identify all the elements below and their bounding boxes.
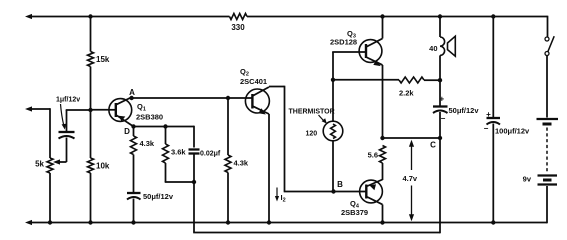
junction 4.3k R5-ground xyxy=(226,220,230,224)
resistor 4.3k (R4) xyxy=(131,136,137,155)
wire Q3 emitter down to node C (crosses 2.2k line) xyxy=(382,65,384,138)
wire bottom ground rail xyxy=(29,222,547,224)
wire Q2 collector to node B xyxy=(269,86,285,88)
svg-text:1μf/12v: 1μf/12v xyxy=(56,97,80,104)
capacitor C3 0.02uf xyxy=(189,148,200,150)
wire battery to ground rail xyxy=(546,186,548,223)
junction Q2 emitter-ground xyxy=(267,220,271,224)
wire thermistor junction to 2.2k xyxy=(333,79,399,81)
junction top rail / speaker branch xyxy=(438,14,442,18)
svg-text:3.6k: 3.6k xyxy=(171,148,186,157)
svg-text:15k: 15k xyxy=(96,55,110,64)
transistor Q4 2SB379 (PNP) xyxy=(360,180,383,203)
arrow top rail continuation (to left) xyxy=(25,14,32,19)
capacitor C1 1uf/12v xyxy=(59,131,75,133)
junction Q4 collector-ground xyxy=(380,220,384,224)
wire base junction to 10k xyxy=(90,110,92,158)
svg-text:THERMISTOR: THERMISTOR xyxy=(289,109,335,116)
svg-text:4.3k: 4.3k xyxy=(140,139,155,148)
wire feedback node down (crosses ground rail) xyxy=(193,182,195,233)
wire 10k to ground rail xyxy=(90,173,92,223)
svg-text:B: B xyxy=(337,180,343,189)
wire D to 4.3k xyxy=(133,127,135,137)
node A (Q1 collector) xyxy=(129,96,133,100)
svg-text:5.6: 5.6 xyxy=(368,151,378,160)
transistor Q3 2SD128 (NPN) xyxy=(359,40,382,63)
wire top rail to voice coil xyxy=(439,17,441,38)
svg-text:40: 40 xyxy=(429,44,437,53)
resistor 10k xyxy=(88,158,94,173)
svg-text:50μf/12v: 50μf/12v xyxy=(143,192,174,201)
svg-text:2SB380: 2SB380 xyxy=(136,113,163,122)
resistor 2.2k xyxy=(399,77,424,83)
resistor 330 (inline, top rail) xyxy=(230,14,248,20)
transistor Q1 2SB380 (PNP) xyxy=(109,99,132,122)
svg-text:120: 120 xyxy=(306,131,318,138)
svg-text:C: C xyxy=(430,141,436,150)
wire C1 top to base node xyxy=(66,110,68,131)
svg-text:−: − xyxy=(441,114,446,123)
wire node A to Q2 base xyxy=(132,97,228,99)
junction top rail / 15k xyxy=(88,14,92,18)
junction C5-ground xyxy=(491,220,495,224)
resistor 3.6k xyxy=(163,144,169,163)
svg-text:4.7v: 4.7v xyxy=(403,174,418,183)
dimension arrow 4.7v xyxy=(409,140,414,147)
svg-text:10k: 10k xyxy=(96,162,110,171)
svg-text:330: 330 xyxy=(231,23,245,32)
wire 4.3k to C2 xyxy=(133,155,135,193)
junction 3.6k/C3 bottom node xyxy=(192,180,196,184)
wire C3 bottom xyxy=(193,154,195,183)
junction top rail / 100uf branch xyxy=(491,14,495,18)
wire 4.3k R5 top lead xyxy=(227,98,229,155)
battery 9v xyxy=(537,118,559,120)
svg-text:9v: 9v xyxy=(523,175,532,184)
svg-text:2SC401: 2SC401 xyxy=(240,77,267,86)
junction thermistor / 2.2k line xyxy=(331,78,335,82)
wire Q3 collector to top rail xyxy=(382,17,384,39)
wire 15k to base junction xyxy=(90,67,92,111)
node B junction xyxy=(331,189,335,193)
wire voice coil to junction xyxy=(439,55,441,80)
svg-text:−: − xyxy=(484,124,489,133)
junction node base divider xyxy=(88,108,92,112)
resistor 15k xyxy=(88,52,94,67)
arrow input wire (to left) xyxy=(25,106,32,111)
node D (Q1 emitter) xyxy=(131,124,135,128)
transistor Q2 2SC401 (NPN) xyxy=(245,89,269,113)
current annotation I2 xyxy=(276,188,278,199)
wire Q2 emitter to ground xyxy=(268,114,270,223)
wire top rail to 15k xyxy=(90,17,92,52)
wire C4 to node C and down xyxy=(439,112,441,138)
wire node D feedback branch xyxy=(134,126,195,128)
svg-text:+: + xyxy=(439,95,444,104)
junction 10k-ground xyxy=(88,220,92,224)
wire 2.2k to speaker branch xyxy=(424,79,440,81)
svg-text:50μf/12v: 50μf/12v xyxy=(449,106,480,115)
switch S1 (power) xyxy=(545,37,549,41)
resistor 4.3k (R5) xyxy=(225,155,231,173)
wiper arrow of 5k pot xyxy=(53,159,60,164)
junction 2.2k / speaker branch xyxy=(438,78,442,82)
wire 3.6k bottom to joint xyxy=(165,163,167,182)
capacitor C4 50uf/12v (output) xyxy=(433,105,448,107)
wire top supply rail (left of R 330) xyxy=(29,16,230,18)
wire node C xyxy=(383,137,441,139)
capacitor C5 100uf/12v xyxy=(487,117,501,119)
wire Q4 collector to ground rail xyxy=(382,205,384,223)
wire 5k bottom to ground rail xyxy=(49,173,51,223)
wire C2 to ground rail xyxy=(133,199,135,223)
wire input (mid-left) xyxy=(29,108,50,110)
wire wiper to C1 bottom xyxy=(66,138,68,163)
wire junction to C4 xyxy=(439,80,441,105)
svg-text:2SB379: 2SB379 xyxy=(341,208,368,217)
junction Q3 collector-top rail xyxy=(380,14,384,18)
capacitor C2 50uf/12v xyxy=(127,192,141,194)
junction C2-ground xyxy=(131,220,135,224)
thermistor 120 ohm xyxy=(323,121,343,141)
svg-text:100μf/12v: 100μf/12v xyxy=(495,127,530,136)
junction D-wire / 3.6k xyxy=(163,124,167,128)
arrow bottom rail continuation (to left) xyxy=(25,220,32,225)
wire 3.6k top lead xyxy=(165,127,167,145)
wire top rail corner to switch xyxy=(547,16,549,37)
leader arrow thermistor label xyxy=(319,115,325,121)
junction node A / 4.3k R5 xyxy=(226,96,230,100)
junction Q3 emitter / node C xyxy=(380,136,384,140)
svg-text:2.2k: 2.2k xyxy=(399,89,414,98)
wire feedback run to node C xyxy=(193,232,440,234)
svg-text:5k: 5k xyxy=(35,160,44,169)
svg-text:4.3k: 4.3k xyxy=(234,159,249,168)
speaker cone xyxy=(448,36,456,56)
svg-text:D: D xyxy=(124,127,130,136)
wire top supply rail (right of R 330) xyxy=(247,16,548,18)
leader arrow 1uf label to C1 xyxy=(61,104,64,126)
svg-text:2SD128: 2SD128 xyxy=(330,38,357,47)
wire thermistor top to Q3 base corner xyxy=(332,52,334,122)
junction node C / output cap xyxy=(438,136,442,140)
wire 4.3k R5 to ground xyxy=(227,173,229,223)
resistor 5.6 xyxy=(380,146,386,164)
wire C5 to ground rail xyxy=(492,124,494,223)
wire 5.6 to Q4 emitter xyxy=(382,163,384,180)
junction 5k-ground xyxy=(48,220,52,224)
svg-text:0.02μf: 0.02μf xyxy=(200,151,221,158)
wire base junction to Q1 base xyxy=(91,109,111,111)
wire thermistor bottom to node B xyxy=(332,141,334,192)
potentiometer 5k (volume control) xyxy=(47,158,53,173)
speaker voice coil 40 ohm xyxy=(440,37,445,55)
wire top rail to C5 xyxy=(492,17,494,118)
wire switch to battery xyxy=(546,56,548,118)
svg-text:A: A xyxy=(129,88,135,97)
